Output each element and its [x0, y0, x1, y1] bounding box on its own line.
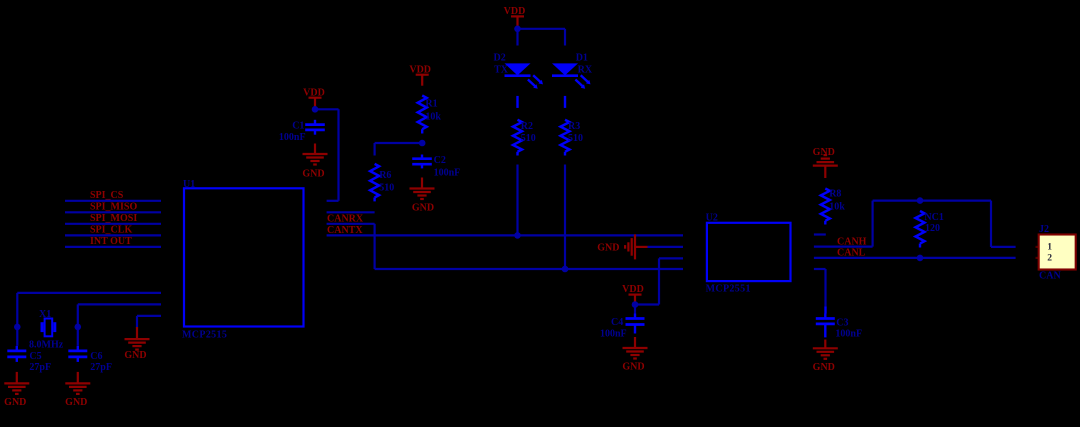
- svg-text:GND: GND: [302, 168, 324, 179]
- ground below C4: [634, 337, 636, 348]
- svg-text:X1: X1: [39, 309, 51, 320]
- svg-text:C5: C5: [29, 351, 41, 362]
- capacitor C2: [421, 155, 423, 159]
- svg-text:VDD: VDD: [622, 284, 644, 295]
- capacitor C3: [824, 314, 826, 319]
- wire U1 GND pin: [137, 315, 161, 317]
- node NC1 top junction: [917, 197, 924, 204]
- svg-text:NC1: NC1: [924, 212, 943, 223]
- wire OSC1 vertical: [16, 293, 18, 327]
- capacitor C4: [634, 314, 636, 319]
- svg-text:C2: C2: [434, 155, 446, 166]
- svg-text:J2: J2: [1039, 224, 1049, 235]
- chip U1 MCP2515: [184, 188, 304, 326]
- wire R2 to TXD bus: [516, 165, 518, 236]
- svg-text:100nF: 100nF: [434, 168, 461, 179]
- wire C4 top: [634, 305, 636, 314]
- wire node to R6: [375, 142, 423, 144]
- svg-text:TX: TX: [494, 64, 509, 75]
- wire U2 VSS pin: [648, 246, 684, 248]
- wire INT OUT: [65, 246, 161, 248]
- svg-text:C4: C4: [611, 317, 623, 328]
- wire RESET: [327, 211, 375, 213]
- wire VDD junction to U1 pin: [315, 108, 339, 110]
- node R3-RXD junction: [562, 266, 569, 273]
- power VDD at R1: [416, 74, 429, 76]
- ground below C6: [77, 372, 79, 384]
- wire SPI_CLK: [65, 234, 161, 236]
- ground below C3: [824, 340, 826, 349]
- wire R3 to RXD bus: [564, 165, 566, 270]
- svg-text:INT OUT: INT OUT: [90, 236, 132, 247]
- svg-text:1: 1: [1047, 242, 1052, 253]
- node LED rail junction: [514, 26, 521, 33]
- svg-text:27pF: 27pF: [90, 362, 112, 373]
- wire D2 anode: [516, 29, 518, 46]
- capacitor C6: [77, 346, 79, 351]
- wire U2 VDD pin: [659, 257, 683, 259]
- ground below C2: [421, 178, 423, 189]
- crystal X1: [45, 319, 53, 337]
- wire X1 right to C6: [77, 327, 79, 346]
- svg-text:CAN: CAN: [1039, 270, 1061, 281]
- wire CANH down: [990, 201, 992, 247]
- chip U2 MCP2551: [707, 223, 791, 281]
- svg-text:GND: GND: [813, 362, 835, 373]
- svg-text:SPI_MOSI: SPI_MOSI: [90, 213, 137, 224]
- wire CANH: [814, 246, 873, 248]
- wire SPI_MISO: [65, 211, 161, 213]
- wire D1 anode: [564, 29, 566, 46]
- svg-text:510: 510: [379, 182, 394, 193]
- wire CANH up: [871, 201, 873, 247]
- svg-text:SPI_CS: SPI_CS: [90, 190, 124, 201]
- svg-text:R1: R1: [425, 99, 437, 110]
- svg-text:GND: GND: [622, 362, 644, 373]
- connector J2 CAN: [1039, 235, 1076, 270]
- power VDD at C1: [309, 97, 322, 99]
- svg-text:C3: C3: [836, 317, 848, 328]
- svg-text:D2: D2: [494, 52, 506, 63]
- resistor R1: [418, 96, 427, 130]
- node OSC2-X1 junction: [75, 324, 82, 331]
- wire CANRX vertical: [374, 224, 376, 269]
- svg-text:510: 510: [521, 133, 536, 144]
- wire RXD bus: [375, 268, 683, 270]
- connector J2 pin stubs: [1036, 246, 1039, 248]
- svg-text:RX: RX: [578, 64, 593, 75]
- node VDD-C1 junction: [312, 106, 319, 113]
- svg-text:SPI_MISO: SPI_MISO: [90, 201, 137, 212]
- svg-text:C6: C6: [90, 351, 102, 362]
- wire CANH to J2: [991, 246, 1016, 248]
- svg-text:CANTX: CANTX: [327, 225, 363, 236]
- svg-text:VDD: VDD: [409, 64, 431, 75]
- svg-text:100nF: 100nF: [600, 328, 627, 339]
- svg-text:10k: 10k: [425, 112, 441, 123]
- power VDD at LEDs: [511, 15, 524, 17]
- wire CANRX: [327, 223, 375, 225]
- resistor R8: [821, 189, 830, 221]
- node R2-TXD junction: [514, 232, 521, 239]
- wire SPI_CS: [65, 200, 161, 202]
- svg-text:GND: GND: [412, 203, 434, 214]
- ground below C1: [314, 144, 316, 155]
- svg-text:SPI_CLK: SPI_CLK: [90, 224, 132, 235]
- wire OSC1 horizontal: [17, 292, 161, 294]
- svg-text:U1: U1: [183, 179, 195, 190]
- svg-text:8.0MHz: 8.0MHz: [29, 339, 64, 350]
- svg-text:GND: GND: [124, 350, 146, 361]
- wire TXD bus: [327, 234, 683, 236]
- capacitor C1: [314, 120, 316, 125]
- svg-text:R3: R3: [568, 121, 580, 132]
- ground above R8: [824, 166, 826, 178]
- resistor R6: [370, 164, 379, 198]
- svg-text:GND: GND: [813, 147, 835, 158]
- svg-text:GND: GND: [4, 397, 26, 408]
- svg-text:100nF: 100nF: [835, 329, 862, 340]
- svg-text:R8: R8: [829, 189, 841, 200]
- ground below C5: [16, 372, 18, 384]
- node R1-C2-R6 junction: [419, 140, 426, 147]
- node NC1 bottom junction: [917, 255, 924, 262]
- wire C3 top: [824, 307, 826, 314]
- wire X1 left to C5: [16, 327, 18, 346]
- wire D1 cathode link: [564, 96, 566, 108]
- svg-text:U2: U2: [706, 212, 718, 223]
- node OSC1-X1 junction: [14, 324, 21, 331]
- svg-text:2: 2: [1047, 252, 1052, 263]
- LED D1: [552, 63, 578, 75]
- wire D2 cathode link: [516, 96, 518, 108]
- svg-text:R2: R2: [521, 121, 533, 132]
- LED D2 arrows: [533, 75, 541, 82]
- wire CANH rail: [873, 200, 991, 202]
- wire U2 RS pin: [814, 233, 826, 235]
- svg-text:VDD: VDD: [504, 6, 526, 17]
- capacitor C5: [16, 346, 18, 351]
- resistor R2: [513, 120, 522, 152]
- svg-text:CANRX: CANRX: [327, 213, 364, 224]
- svg-text:GND: GND: [65, 397, 87, 408]
- svg-text:100nF: 100nF: [279, 132, 306, 143]
- wire CANL: [814, 257, 1016, 259]
- svg-text:C1: C1: [292, 121, 304, 132]
- svg-text:27pF: 27pF: [29, 362, 51, 373]
- svg-text:510: 510: [568, 133, 583, 144]
- svg-text:R6: R6: [379, 170, 391, 181]
- svg-text:GND: GND: [597, 243, 619, 254]
- wire OSC2 vertical: [77, 304, 79, 327]
- svg-text:10k: 10k: [829, 201, 845, 212]
- resistor R3: [561, 120, 570, 152]
- ground at U2 VSS: [635, 246, 648, 248]
- wire U2 VREF pin: [814, 268, 826, 270]
- svg-text:D1: D1: [576, 52, 588, 63]
- LED D2: [505, 63, 531, 75]
- resistor NC1: [916, 211, 925, 243]
- svg-text:120: 120: [925, 223, 940, 234]
- node VDD-C4 junction: [632, 301, 639, 308]
- svg-text:VDD: VDD: [303, 87, 325, 98]
- svg-text:MCP2515: MCP2515: [182, 330, 227, 341]
- wire SPI_MOSI: [65, 223, 161, 225]
- wire LED rail: [518, 28, 566, 30]
- wire OSC2 horizontal: [78, 303, 161, 305]
- LED D1 arrows: [581, 75, 589, 82]
- svg-text:MCP2551: MCP2551: [706, 283, 751, 294]
- power VDD at U2: [629, 294, 642, 296]
- ground below U1: [136, 327, 138, 339]
